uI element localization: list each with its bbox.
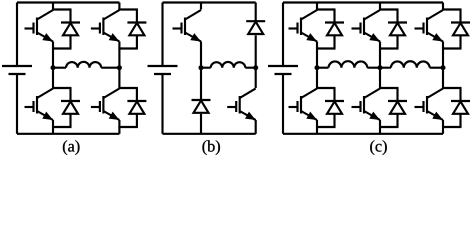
wire c-top-2 diode upper lead — [396, 10, 398, 23]
IGBT c-bottom-1 emitter diagonal — [301, 111, 317, 120]
wire a-top-right bottom jog — [118, 47, 137, 49]
IGBT a-top-right emitter arrow — [109, 33, 120, 41]
IGBT c-bottom-3 collector diagonal — [427, 89, 443, 99]
IGBT a-bottom-right gate bar — [99, 101, 101, 112]
wire c-top-1 diode upper lead — [333, 10, 335, 23]
wire a-bottom-left top jog — [52, 87, 72, 89]
label (a) — [63, 140, 67, 155]
wire a-top-left diode lower lead — [69, 35, 71, 48]
IGBT c-bottom-3 body bar — [426, 96, 428, 114]
wire a-top-left collector stub — [52, 3, 54, 10]
wire a-top-right collector stub — [118, 3, 120, 10]
diode b-top-right triangle — [248, 22, 263, 34]
IGBT a-bottom-right emitter arrow — [109, 112, 120, 120]
inductor La — [66, 62, 101, 68]
IGBT b-top-left gate lead — [173, 27, 182, 29]
node (a) left junction — [51, 65, 56, 70]
wire (a) mid rail left — [53, 67, 66, 69]
wire a-bottom-left emitter lead — [52, 120, 54, 134]
wire c-top-2 collector stub — [379, 3, 381, 10]
IGBT c-top-2 emitter diagonal — [364, 33, 380, 42]
wire (c) top rail — [283, 1, 443, 3]
diode b-bottom-left triangle — [194, 101, 209, 113]
wire c-bottom-2 bottom jog — [379, 126, 399, 128]
IGBT a-bottom-left body bar — [36, 96, 38, 114]
wire (c) bottom rail — [283, 133, 443, 135]
IGBT a-top-right collector diagonal — [103, 10, 119, 20]
diode c-top-1 cathode bar — [325, 21, 344, 23]
wire c-top-1 bottom jog — [316, 47, 336, 49]
IGBT c-top-1 body bar — [300, 18, 302, 36]
IGBT c-top-1 gate bar — [296, 23, 298, 34]
diode c-top-2 triangle — [390, 23, 405, 35]
wire Va positive lead — [16, 3, 18, 67]
IGBT a-top-left gate bar — [32, 23, 34, 34]
IGBT c-bottom-3 emitter arrow — [432, 112, 443, 120]
IGBT b-top-left emitter diagonal — [185, 33, 201, 42]
diode b-top-right cathode bar — [246, 20, 265, 22]
battery Vb short plate — [154, 73, 171, 75]
IGBT c-top-1 collector diagonal — [301, 10, 317, 20]
wire b-bottom-left diode upper lead — [200, 68, 202, 101]
diode a-top-left triangle — [63, 23, 78, 35]
battery Va short plate — [9, 73, 26, 75]
IGBT c-top-1 gate lead — [289, 27, 298, 29]
IGBT c-bottom-3 gate lead — [415, 106, 424, 108]
diode c-top-3 triangle — [453, 23, 468, 35]
diode c-top-3 cathode bar — [451, 21, 470, 23]
wire (b) top rail — [163, 1, 256, 3]
IGBT b-bottom-right emitter arrow — [245, 112, 256, 120]
wire c-bottom-1 collector stub — [316, 68, 318, 88]
diode c-bottom-3 cathode bar — [451, 100, 470, 102]
IGBT c-bottom-3 gate bar — [422, 101, 424, 112]
diode c-bottom-3 triangle — [453, 102, 468, 114]
wire c-top-2 bottom jog — [379, 47, 399, 49]
wire b-bottom-left diode lower lead — [200, 114, 202, 134]
IGBT c-bottom-2 gate bar — [359, 101, 361, 112]
diode c-bottom-1 triangle — [327, 102, 342, 114]
wire Va negative lead — [16, 74, 18, 134]
wire a-bottom-right top jog — [118, 87, 137, 89]
IGBT c-bottom-1 body bar — [300, 96, 302, 114]
IGBT c-top-3 gate lead — [415, 27, 424, 29]
wire c-bottom-1 diode upper lead — [333, 88, 335, 101]
wire a-bottom-left diode upper lead — [69, 88, 71, 101]
battery Vb long plate — [148, 65, 178, 67]
diode a-top-right triangle — [129, 23, 144, 35]
IGBT a-top-left emitter arrow — [42, 33, 53, 41]
IGBT c-top-1 emitter arrow — [306, 33, 317, 41]
label (b) — [202, 140, 206, 155]
wire c-top-1 diode lower lead — [333, 35, 335, 48]
wire c-top-3 diode lower lead — [459, 35, 461, 48]
IGBT b-bottom-right collector diagonal — [240, 89, 256, 99]
wire (c) mid rail seg2 — [367, 67, 391, 69]
diode a-bottom-right cathode bar — [127, 100, 146, 102]
diode c-top-2 cathode bar — [388, 21, 407, 23]
wire (a) bottom rail — [17, 133, 119, 135]
node (c) junction 1 — [315, 65, 320, 70]
wire c-top-2 top jog — [379, 8, 399, 10]
IGBT c-top-3 gate bar — [422, 23, 424, 34]
battery Vc short plate — [275, 73, 292, 75]
IGBT c-bottom-2 body bar — [363, 96, 365, 114]
wire a-bottom-right diode lower lead — [136, 114, 138, 127]
IGBT a-top-right body bar — [102, 18, 104, 36]
diode a-bottom-left triangle — [63, 102, 78, 114]
wire (a) top rail — [17, 1, 119, 3]
wire c-bottom-3 emitter lead — [442, 120, 444, 134]
wire c-bottom-3 diode upper lead — [459, 88, 461, 101]
wire a-bottom-right collector stub — [118, 68, 120, 88]
wire a-top-left bottom jog — [52, 47, 72, 49]
wire (a) mid rail right — [101, 67, 119, 69]
battery Va long plate — [2, 65, 32, 67]
IGBT c-top-2 collector diagonal — [364, 10, 380, 20]
wire c-top-2 diode lower lead — [396, 35, 398, 48]
IGBT c-top-2 body bar — [363, 18, 365, 36]
IGBT c-bottom-2 emitter diagonal — [364, 111, 380, 120]
wire c-top-1 top jog — [316, 8, 336, 10]
wire a-top-right diode upper lead — [136, 10, 138, 23]
wire b-bottom-right collector stub — [255, 68, 257, 88]
wire c-bottom-3 bottom jog — [442, 126, 462, 128]
IGBT c-top-2 emitter arrow — [369, 33, 380, 41]
IGBT a-top-right emitter diagonal — [103, 33, 119, 42]
wire c-bottom-3 top jog — [442, 87, 462, 89]
wire a-bottom-right diode upper lead — [136, 88, 138, 101]
IGBT c-bottom-1 collector diagonal — [301, 89, 317, 99]
IGBT c-bottom-1 gate bar — [296, 101, 298, 112]
wire c-bottom-2 emitter lead — [379, 120, 381, 134]
IGBT a-top-left gate lead — [25, 27, 34, 29]
IGBT a-bottom-left emitter diagonal — [37, 111, 53, 120]
wire b-top-left collector stub — [200, 3, 202, 10]
wire a-top-right diode lower lead — [136, 35, 138, 48]
IGBT b-top-left collector diagonal — [185, 10, 201, 20]
wire a-top-right emitter lead — [118, 42, 120, 68]
wire Vc positive lead — [282, 3, 284, 67]
node (c) junction 3 — [441, 65, 446, 70]
wire c-bottom-1 bottom jog — [316, 126, 336, 128]
inductor Lc1 — [329, 61, 368, 67]
IGBT b-top-left body bar — [184, 18, 186, 36]
wire Vb negative lead — [161, 74, 163, 134]
wire b-top-right diode upper lead — [255, 3, 257, 23]
wire (c) mid rail seg3 — [430, 67, 443, 69]
wire (b) mid rail right — [245, 67, 255, 69]
wire a-bottom-left collector stub — [52, 68, 54, 88]
wire b-bottom-right emitter lead — [255, 120, 257, 134]
IGBT c-top-3 body bar — [426, 18, 428, 36]
IGBT c-top-3 emitter arrow — [432, 33, 443, 41]
IGBT a-top-right gate lead — [91, 27, 100, 29]
wire c-top-3 emitter lead — [442, 42, 444, 68]
wire c-bottom-3 collector stub — [442, 68, 444, 88]
IGBT a-top-left collector diagonal — [37, 10, 53, 20]
node (b) left junction — [199, 65, 204, 70]
IGBT c-bottom-2 collector diagonal — [364, 89, 380, 99]
wire c-bottom-2 collector stub — [379, 68, 381, 88]
diode a-bottom-right triangle — [129, 102, 144, 114]
node (b) right junction — [253, 65, 258, 70]
IGBT c-top-3 emitter diagonal — [427, 33, 443, 42]
wire a-bottom-left bottom jog — [52, 126, 72, 128]
wire c-bottom-3 diode lower lead — [459, 114, 461, 127]
wire (b) bottom rail — [163, 133, 256, 135]
wire a-top-left emitter lead — [52, 42, 54, 68]
IGBT a-bottom-right body bar — [102, 96, 104, 114]
IGBT b-bottom-right body bar — [239, 96, 241, 114]
wire a-bottom-left diode lower lead — [69, 114, 71, 127]
IGBT a-bottom-left emitter arrow — [42, 112, 53, 120]
wire c-top-3 collector stub — [442, 3, 444, 10]
IGBT c-bottom-2 gate lead — [352, 106, 361, 108]
IGBT c-bottom-3 emitter diagonal — [427, 111, 443, 120]
IGBT b-bottom-right gate lead — [227, 106, 236, 108]
IGBT a-bottom-right collector diagonal — [103, 89, 119, 99]
wire b-top-left emitter lead — [200, 42, 202, 68]
wire c-top-2 emitter lead — [379, 42, 381, 68]
wire c-top-1 collector stub — [316, 3, 318, 10]
IGBT a-bottom-right gate lead — [91, 106, 100, 108]
wire c-bottom-1 emitter lead — [316, 120, 318, 134]
wire c-bottom-1 diode lower lead — [333, 114, 335, 127]
IGBT a-top-right gate bar — [99, 23, 101, 34]
IGBT c-top-2 gate bar — [359, 23, 361, 34]
IGBT a-top-left emitter diagonal — [37, 33, 53, 42]
wire c-bottom-1 top jog — [316, 87, 336, 89]
diode a-top-left cathode bar — [61, 21, 80, 23]
IGBT b-top-left gate bar — [180, 23, 182, 34]
wire (c) mid rail seg1 — [317, 67, 329, 69]
wire (b) mid rail left — [201, 67, 211, 69]
wire b-top-right diode lower lead — [255, 35, 257, 67]
wire a-bottom-right bottom jog — [118, 126, 137, 128]
IGBT b-top-left emitter arrow — [190, 33, 201, 41]
diode c-bottom-2 cathode bar — [388, 100, 407, 102]
wire a-top-right top jog — [118, 8, 137, 10]
inductor Lb — [211, 62, 246, 68]
diode c-bottom-2 triangle — [390, 102, 405, 114]
node (c) junction 2 — [378, 65, 383, 70]
IGBT c-top-3 collector diagonal — [427, 10, 443, 20]
wire a-top-left diode upper lead — [69, 10, 71, 23]
IGBT c-top-2 gate lead — [352, 27, 361, 29]
IGBT a-bottom-right emitter diagonal — [103, 111, 119, 120]
IGBT a-top-left body bar — [36, 18, 38, 36]
inductor Lc2 — [391, 61, 430, 67]
diode c-bottom-1 cathode bar — [325, 100, 344, 102]
wire c-bottom-2 diode upper lead — [396, 88, 398, 101]
IGBT a-bottom-left gate bar — [32, 101, 34, 112]
IGBT c-bottom-1 emitter arrow — [306, 112, 317, 120]
diode c-top-1 triangle — [327, 23, 342, 35]
diode b-bottom-left cathode bar — [192, 99, 211, 101]
IGBT b-bottom-right emitter diagonal — [240, 111, 256, 120]
IGBT b-bottom-right gate bar — [235, 101, 237, 112]
IGBT c-top-1 emitter diagonal — [301, 33, 317, 42]
wire a-bottom-right emitter lead — [118, 120, 120, 134]
IGBT c-bottom-1 gate lead — [289, 106, 298, 108]
battery Vc long plate — [268, 65, 298, 67]
wire c-top-3 top jog — [442, 8, 462, 10]
wire c-top-3 bottom jog — [442, 47, 462, 49]
wire Vb positive lead — [161, 3, 163, 67]
IGBT a-bottom-left collector diagonal — [37, 89, 53, 99]
wire c-top-3 diode upper lead — [459, 10, 461, 23]
IGBT a-bottom-left gate lead — [25, 106, 34, 108]
node (a) right junction — [117, 65, 122, 70]
wire a-top-left top jog — [52, 8, 72, 10]
diode a-top-right cathode bar — [127, 21, 146, 23]
label (c) — [370, 140, 374, 155]
IGBT c-bottom-2 emitter arrow — [369, 112, 380, 120]
wire Vc negative lead — [282, 74, 284, 134]
wire c-top-1 emitter lead — [316, 42, 318, 68]
wire c-bottom-2 diode lower lead — [396, 114, 398, 127]
wire c-bottom-2 top jog — [379, 87, 399, 89]
diode a-bottom-left cathode bar — [61, 100, 80, 102]
